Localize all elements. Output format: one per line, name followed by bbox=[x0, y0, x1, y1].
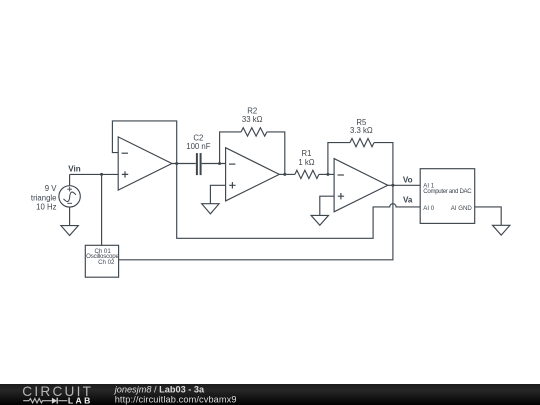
wire R1 to op-amp 3 minus input bbox=[319, 173, 334, 175]
wire source top to Vin row bbox=[69, 174, 71, 185]
wire Va: op-amp 1 output around to DAC AI 0 (hops over Vo wire) bbox=[177, 164, 421, 239]
svg-text:AI GND: AI GND bbox=[451, 205, 473, 212]
resistor R5 (feedback) bbox=[328, 138, 393, 185]
svg-text:9 V: 9 V bbox=[45, 184, 58, 193]
voltage source V1 bbox=[59, 186, 80, 207]
node op-amp 1 output junction bbox=[175, 162, 178, 165]
wire source bottom to ground bbox=[69, 207, 71, 226]
op-amp OA2 bbox=[226, 148, 280, 201]
wire op-amp 1 feedback loop bbox=[112, 121, 176, 164]
op-amp OA3 bbox=[334, 159, 388, 212]
node R5 branch junction bbox=[326, 173, 329, 176]
CircuitLab logo bbox=[22, 384, 93, 405]
ground below source bbox=[61, 226, 78, 236]
node op-amp 3 output junction bbox=[391, 184, 394, 187]
wire Vin row to op-amp 1 plus input bbox=[70, 173, 119, 175]
ground at AI GND bbox=[493, 225, 510, 235]
svg-text:triangle: triangle bbox=[31, 193, 57, 202]
wire Vo node down to oscilloscope Ch 02 bbox=[119, 185, 393, 259]
oscilloscope box bbox=[85, 245, 118, 277]
node Vin junction bbox=[100, 173, 103, 176]
node op-amp 2 output junction bbox=[283, 173, 286, 176]
wire op-amp 2 output bbox=[279, 173, 295, 175]
svg-text:Computer and DAC: Computer and DAC bbox=[423, 188, 472, 195]
wire AI GND to ground bbox=[475, 207, 502, 225]
ground at op-amp 3 plus input bbox=[311, 196, 334, 225]
svg-text:Ch 02: Ch 02 bbox=[98, 259, 115, 266]
svg-text:3.3 kΩ: 3.3 kΩ bbox=[350, 126, 373, 135]
svg-text:R1: R1 bbox=[302, 149, 312, 158]
resistor R2 (feedback) bbox=[220, 128, 285, 175]
svg-text:Vin: Vin bbox=[68, 165, 81, 174]
wire op-amp 3 output to DAC AI 1 bbox=[388, 184, 420, 186]
svg-text:1 kΩ: 1 kΩ bbox=[298, 158, 314, 167]
wire Vin junction down to oscilloscope Ch 01 bbox=[101, 174, 103, 245]
svg-text:33 kΩ: 33 kΩ bbox=[242, 115, 263, 124]
svg-text:jonesjm8 / Lab03 - 3a: jonesjm8 / Lab03 - 3a bbox=[113, 384, 205, 394]
footer bar bbox=[0, 384, 540, 405]
value label 9 V triangle 10 Hz bbox=[31, 184, 57, 212]
wire op-amp 1 output bbox=[172, 163, 196, 165]
svg-text:10 Hz: 10 Hz bbox=[36, 203, 56, 212]
svg-text:100 nF: 100 nF bbox=[186, 142, 211, 151]
capacitor C2 bbox=[197, 153, 201, 175]
node R2 branch junction bbox=[218, 162, 221, 165]
computer and DAC box U2 bbox=[420, 169, 475, 224]
ground at op-amp 2 plus input bbox=[202, 185, 226, 214]
svg-text:http://circuitlab.com/cvbamx9: http://circuitlab.com/cvbamx9 bbox=[115, 394, 237, 404]
wire C2 to op-amp 2 minus input bbox=[202, 163, 226, 165]
svg-text:Vo: Vo bbox=[403, 176, 413, 185]
resistor R1 bbox=[295, 170, 319, 178]
svg-text:AI 0: AI 0 bbox=[423, 205, 434, 212]
svg-text:Va: Va bbox=[403, 195, 413, 204]
op-amp OA1 bbox=[118, 137, 172, 190]
svg-text:LAB: LAB bbox=[68, 396, 93, 405]
